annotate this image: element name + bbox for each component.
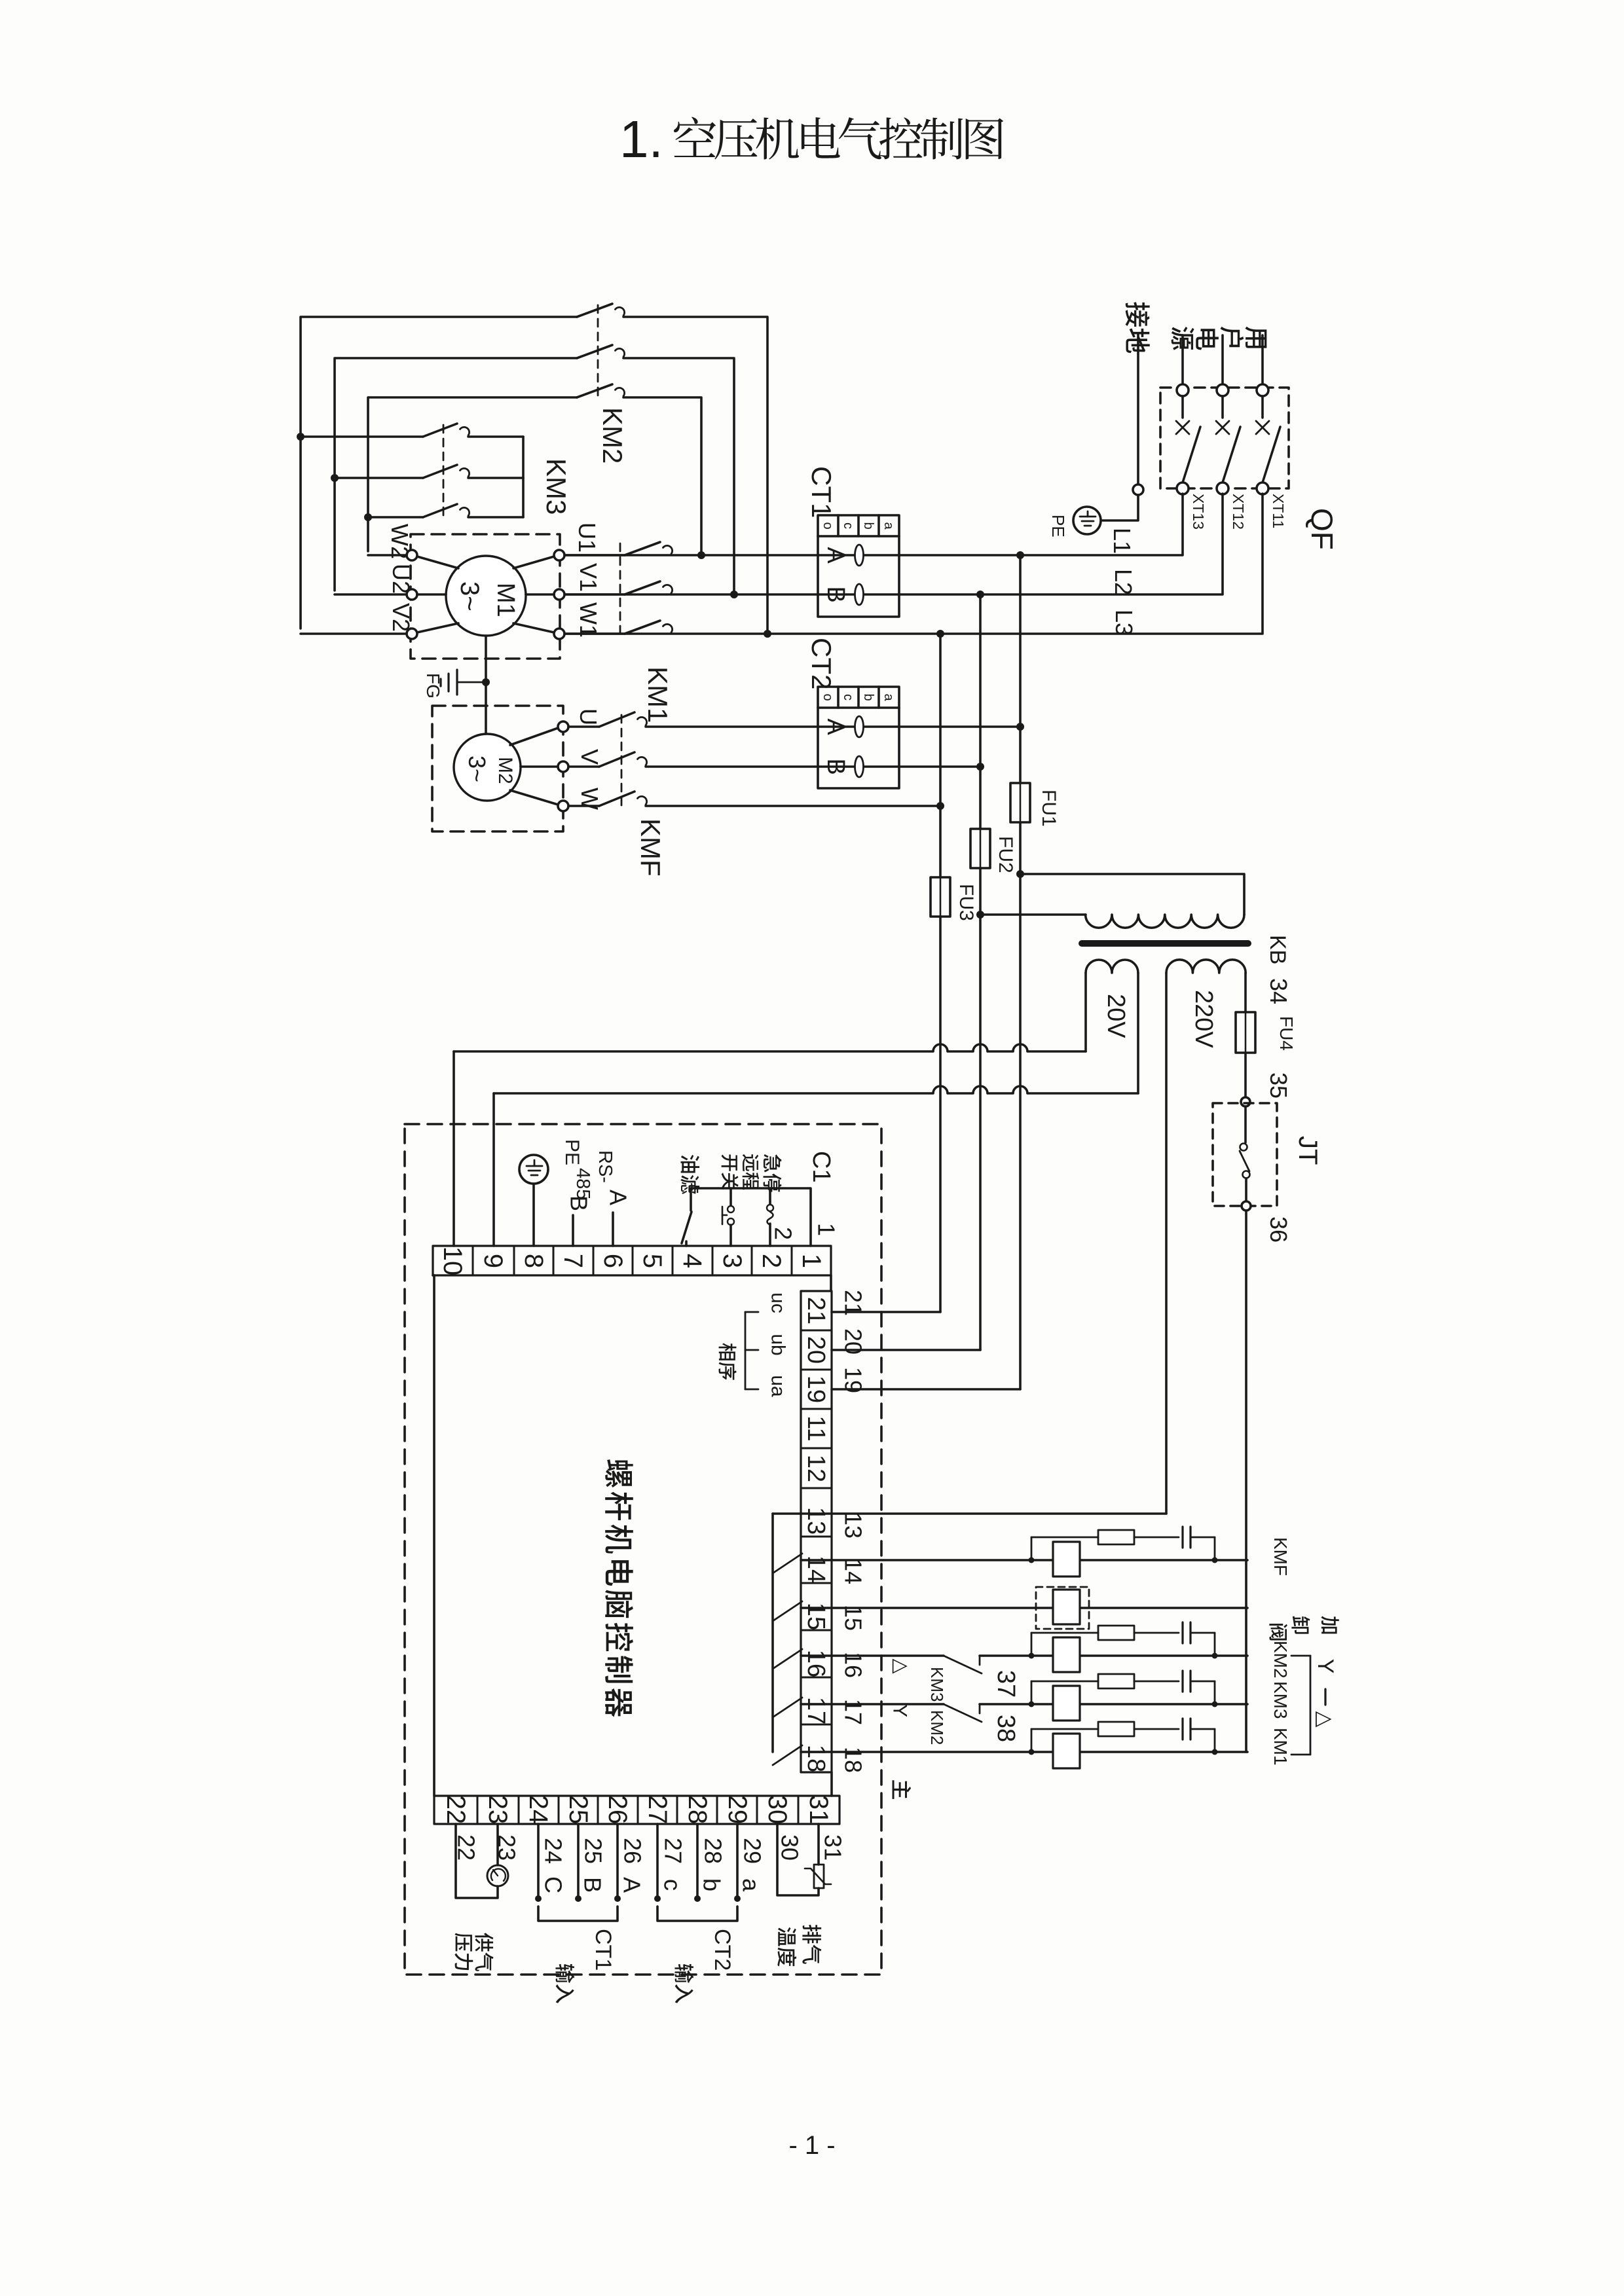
wire FU2 branch lower <box>979 868 982 1350</box>
wire M2 phase A to tap <box>646 725 1020 728</box>
svg-text:o: o <box>821 693 835 701</box>
label 远程开关 <box>743 1154 759 1171</box>
motor M1 body <box>446 556 526 636</box>
svg-text:13: 13 <box>840 1512 867 1539</box>
svg-text:c: c <box>841 522 855 529</box>
svg-text:uc: uc <box>767 1292 789 1313</box>
junction KM2 pole3 on L1 <box>697 551 705 559</box>
motor M1 terminal leads <box>417 556 458 568</box>
contactor KM2 pole1 loop wire (V2 phase) <box>301 317 577 629</box>
svg-text:8: 8 <box>519 1254 548 1268</box>
contactor KM3 pole3 contact <box>423 504 457 517</box>
contactor KM1 linkage dashed <box>619 543 621 636</box>
interlock contact KM3 NC with node 37 <box>944 1656 982 1673</box>
valve 加卸阀 coil with dashed box <box>1036 1587 1089 1629</box>
svg-text:b: b <box>699 1878 726 1891</box>
connector C1 common wire <box>691 1188 811 1246</box>
svg-text:A: A <box>822 547 849 564</box>
svg-text:29: 29 <box>739 1838 766 1864</box>
svg-text:1: 1 <box>797 1254 826 1268</box>
junction FG tap <box>482 678 490 686</box>
svg-text:7: 7 <box>559 1254 587 1268</box>
contactor KM3 star bar <box>522 437 525 517</box>
svg-text:22: 22 <box>441 1795 470 1825</box>
svg-text:JT: JT <box>1293 1136 1322 1165</box>
breaker QF pole 2 top terminal <box>1217 384 1228 396</box>
svg-text:29: 29 <box>723 1795 752 1825</box>
svg-text:3~: 3~ <box>455 581 484 611</box>
svg-text:22: 22 <box>453 1834 480 1861</box>
junction KM3 pole3 tap <box>364 513 372 521</box>
svg-text:W2: W2 <box>386 524 413 559</box>
thermal switch JT dashed box <box>1213 1103 1277 1206</box>
contactor KM2 pole2 wire to L2 <box>623 358 734 591</box>
svg-text:21: 21 <box>802 1297 830 1324</box>
contactor KM2 pole1 wire to L3 <box>623 317 767 630</box>
svg-text:C: C <box>540 1876 567 1893</box>
svg-text:37: 37 <box>992 1670 1020 1698</box>
svg-text:28: 28 <box>700 1838 727 1864</box>
svg-text:ub: ub <box>767 1334 789 1355</box>
label 油滤 <box>681 1155 700 1173</box>
sensor 排气温度 thermistor wires 30 31 <box>777 1824 819 1895</box>
svg-text:14: 14 <box>840 1558 867 1584</box>
svg-text:20: 20 <box>802 1336 830 1364</box>
fuse FU1 <box>1010 783 1030 822</box>
svg-text:V1: V1 <box>575 563 602 592</box>
wire M1 V2 jumper to loop <box>301 632 407 635</box>
relay KM2 snubber RC <box>1031 1633 1033 1656</box>
svg-text:B: B <box>580 1877 606 1893</box>
junction KM3 pole2 tap <box>331 474 339 482</box>
wire M2 phase C to tap <box>646 805 940 807</box>
svg-text:11: 11 <box>802 1415 830 1441</box>
svg-text:CT2: CT2 <box>806 638 837 689</box>
fuse FU3 <box>931 877 950 917</box>
port RS-485 B stub pin 7 <box>572 1215 574 1246</box>
svg-text:Y: Y <box>889 1704 911 1717</box>
motor M1 terminal W1 <box>554 629 564 639</box>
wire L2 bus <box>564 494 1223 594</box>
contactor KM3 pole1 input wire <box>301 435 423 438</box>
svg-text:KMF: KMF <box>1270 1537 1291 1576</box>
contactor KM2 pole2 contact <box>577 345 612 358</box>
svg-text:2: 2 <box>757 1254 786 1268</box>
svg-text:a: a <box>738 1878 765 1892</box>
contactor KM3 linkage dashed <box>443 425 445 520</box>
wire FU3 branch lower <box>939 917 942 1312</box>
wire 20V to terminal 10 with hops <box>454 1044 1086 1051</box>
svg-text:M1: M1 <box>492 583 519 617</box>
svg-text:10: 10 <box>438 1247 467 1276</box>
svg-text:CT1: CT1 <box>806 466 837 518</box>
breaker QF pole 3 bottom terminal <box>1177 483 1189 494</box>
svg-text:9: 9 <box>479 1254 507 1268</box>
label 排气温度 <box>802 1925 821 1944</box>
wire supply L1 lead-in <box>1181 335 1184 385</box>
breaker QF pole 2 bottom terminal <box>1217 483 1228 494</box>
node 接地 ground label <box>1126 302 1150 327</box>
controller terminal strip 10..1 <box>433 1246 831 1275</box>
svg-text:a: a <box>881 693 896 701</box>
wire FU1 branch upper <box>1019 555 1022 783</box>
svg-text:Y: Y <box>1313 1659 1338 1674</box>
contactor KMF pole1 contact <box>568 725 599 728</box>
motor M2 terminal W <box>558 801 568 811</box>
wire M1 frame to FG and M2 <box>485 636 487 735</box>
relay KMF coil <box>1053 1542 1080 1576</box>
relay KM2 channel wire terminal 16 <box>801 1654 944 1657</box>
svg-text:W1: W1 <box>575 602 602 638</box>
svg-text:24: 24 <box>524 1795 553 1825</box>
svg-text:KM2: KM2 <box>927 1710 947 1745</box>
svg-text:V: V <box>576 749 603 765</box>
svg-text:19: 19 <box>802 1376 830 1403</box>
ground PE at controller pin 8 <box>519 1155 548 1184</box>
wire 20V to terminal 9 with hops <box>494 1086 1138 1093</box>
svg-text:25: 25 <box>580 1838 607 1864</box>
svg-text:c: c <box>841 694 855 701</box>
wire FU2 branch upper <box>979 594 982 829</box>
svg-text:34: 34 <box>1265 978 1292 1004</box>
contactor KM3 pole1 output <box>468 435 523 438</box>
transformer KB core <box>1082 940 1248 947</box>
svg-text:XT11: XT11 <box>1270 494 1287 528</box>
svg-text:23: 23 <box>483 1795 512 1825</box>
svg-text:FU3: FU3 <box>955 884 977 921</box>
svg-text:L2: L2 <box>1110 569 1137 595</box>
svg-text:V2: V2 <box>388 603 415 632</box>
wire 220V secondary right leg node 34 <box>1244 973 1247 1012</box>
thermistor RT symbol <box>814 1865 824 1888</box>
svg-text:30: 30 <box>763 1795 792 1825</box>
valve 加卸阀 channel wire terminal 15 <box>801 1607 1247 1609</box>
svg-text:4: 4 <box>678 1254 707 1268</box>
contactor KM3 pole2 output <box>468 477 523 479</box>
CT CT2 port A <box>855 716 864 737</box>
svg-text:26: 26 <box>603 1795 632 1825</box>
wire ground to PE <box>1102 495 1138 520</box>
svg-text:ua: ua <box>767 1375 789 1397</box>
svg-text:FG: FG <box>423 673 443 699</box>
svg-text:b: b <box>861 693 876 701</box>
svg-text:16: 16 <box>802 1650 830 1677</box>
junction KM2 pole1 on L3 <box>764 630 771 638</box>
contactor KM3 pole3 input wire <box>368 516 423 519</box>
relay KM1 channel wire terminal 18 <box>801 1751 1247 1753</box>
wire 20V secondary left leg <box>1084 973 1087 1051</box>
junction KM3 pole1 tap <box>297 433 304 441</box>
contactor KM2 pole3 contact <box>577 384 612 397</box>
svg-text:KB: KB <box>1265 935 1290 964</box>
wire 20V secondary right leg <box>1137 973 1139 1093</box>
label 急停 <box>764 1154 782 1173</box>
svg-text:U: U <box>575 708 602 725</box>
label 主 main <box>893 1780 912 1799</box>
node ground terminal circle <box>1133 484 1143 495</box>
output contacts 14..18 blades <box>773 1554 802 1573</box>
breaker QF pole 3 top terminal <box>1177 384 1189 396</box>
switch 远程开关 remote switch to pin 3 <box>729 1188 732 1205</box>
contactor KMF pole3 contact <box>568 805 599 807</box>
svg-text:20V: 20V <box>1102 994 1130 1038</box>
port RS-485 A stub pin 6 <box>612 1212 614 1246</box>
wire FU3 branch upper <box>939 634 942 877</box>
motor M1 terminal V2 <box>407 629 417 639</box>
svg-text:2: 2 <box>770 1227 797 1240</box>
junction L3 tap to FU3 <box>936 630 944 638</box>
svg-text:△: △ <box>891 1658 912 1673</box>
svg-text:FU4: FU4 <box>1276 1016 1297 1051</box>
svg-text:o: o <box>821 522 835 529</box>
relay KM1 snubber RC <box>1031 1729 1033 1752</box>
transformer KB primary feed from FU2 <box>976 911 984 919</box>
svg-text:36: 36 <box>1265 1216 1292 1243</box>
ground PE symbol <box>1073 507 1101 534</box>
svg-text:485: 485 <box>572 1168 593 1199</box>
svg-text:CT2: CT2 <box>710 1929 735 1971</box>
CT CT2 box <box>818 687 899 788</box>
breaker QF pole 1 contact <box>1261 396 1264 418</box>
relay KM1 coil <box>1053 1734 1080 1768</box>
ground FG symbol <box>457 682 486 683</box>
wire L1 bus <box>564 494 1183 555</box>
svg-text:1.: 1. <box>619 110 663 168</box>
wire supply L3 lead-in <box>1261 335 1264 385</box>
wire ground lead-in <box>1137 334 1139 484</box>
wire M1 right terminals to KM1 <box>564 554 625 556</box>
bracket CT1 input <box>538 1906 618 1921</box>
motor M1 terminal U1 <box>554 550 564 560</box>
breaker QF dashed box <box>1160 388 1289 488</box>
svg-text:KM1: KM1 <box>1270 1728 1291 1766</box>
svg-text:FU1: FU1 <box>1038 790 1060 827</box>
svg-text:3: 3 <box>718 1254 747 1268</box>
valve 加卸阀 label <box>1321 1616 1338 1634</box>
svg-text:30: 30 <box>777 1834 803 1861</box>
relay KMF snubber RC <box>1031 1537 1033 1560</box>
svg-text:KM3: KM3 <box>927 1667 947 1702</box>
fuse FU2 <box>970 829 990 868</box>
contactor KM2 linkage dashed <box>597 305 599 401</box>
svg-text:27: 27 <box>660 1838 687 1864</box>
controller bottom strip 22..31 <box>434 1796 840 1824</box>
wire terminal 19 to FU1 branch <box>832 1388 1020 1391</box>
svg-text:A: A <box>619 1877 646 1893</box>
contactor KM1 pole2 contact <box>625 581 660 594</box>
svg-text:A: A <box>822 718 849 735</box>
switch 油滤 oil filter contact to pin 4 <box>690 1188 692 1211</box>
junction L2 tap to FU2 <box>976 591 984 598</box>
transformer KB primary feed from FU1 <box>1016 870 1024 878</box>
svg-text:KM3: KM3 <box>1270 1681 1291 1719</box>
junction KM2 pole2 on L2 <box>730 591 738 598</box>
svg-text:KM2: KM2 <box>1270 1641 1291 1679</box>
relay KM3 snubber RC <box>1031 1681 1033 1704</box>
contactor KM1 pole1 contact <box>625 542 660 555</box>
junction M2 C tap on FU3 branch <box>936 802 944 810</box>
svg-text:17: 17 <box>840 1699 867 1725</box>
svg-text:M2: M2 <box>494 757 516 784</box>
motor M2 terminal U <box>558 721 568 732</box>
svg-text:12: 12 <box>802 1455 830 1482</box>
CT CT1 port B <box>855 584 864 605</box>
svg-text:B: B <box>822 758 849 774</box>
breaker QF pole 3 contact <box>1181 396 1184 418</box>
wire FU1 branch lower <box>1019 822 1022 1389</box>
svg-text:KM1: KM1 <box>642 666 673 723</box>
motor M2 body <box>454 734 521 801</box>
svg-text:b: b <box>861 522 876 529</box>
svg-text:QF: QF <box>1305 508 1339 550</box>
relay KM2 coil <box>1053 1637 1080 1672</box>
motor M1 terminal W2 <box>407 550 417 560</box>
motor M2 terminal leads <box>510 728 558 745</box>
svg-text:24: 24 <box>540 1838 567 1864</box>
svg-text:U1: U1 <box>574 522 600 553</box>
svg-text:a: a <box>881 522 896 530</box>
svg-text:KM3: KM3 <box>541 458 572 515</box>
transformer KB 20V secondary winding <box>1086 960 1138 973</box>
svg-text:31: 31 <box>804 1795 833 1825</box>
svg-text:35: 35 <box>1265 1072 1292 1099</box>
contactor KM2 pole2 loop wire (U2 phase) <box>335 358 577 591</box>
svg-text:XT13: XT13 <box>1190 494 1207 530</box>
svg-text:18: 18 <box>802 1745 830 1772</box>
svg-text:13: 13 <box>802 1507 830 1535</box>
svg-text:B: B <box>822 586 849 602</box>
label 供气压力 <box>475 1933 493 1951</box>
junction M2 A tap on FU1 branch <box>1016 723 1024 731</box>
svg-text:27: 27 <box>643 1795 672 1825</box>
contactor KM2 pole3 loop wire (W2 phase) <box>368 397 577 551</box>
svg-text:RS-: RS- <box>595 1150 616 1183</box>
sensor pressure symbol <box>487 1865 508 1886</box>
motor M2 dashed enclosure <box>432 706 563 831</box>
relay KM3 channel wire terminal 17 <box>801 1703 944 1705</box>
contactor KM3 pole2 contact <box>423 465 457 478</box>
svg-text:18: 18 <box>840 1747 867 1773</box>
wire terminal 21 to FU3 branch <box>832 1311 940 1313</box>
node 36 terminal <box>1242 1201 1251 1211</box>
svg-text:5: 5 <box>638 1254 667 1268</box>
svg-text:c: c <box>659 1879 686 1891</box>
motor M1 terminal V1 <box>554 589 564 600</box>
svg-text:28: 28 <box>683 1795 712 1825</box>
svg-text:23: 23 <box>494 1834 521 1861</box>
CT CT2 port B <box>855 756 864 777</box>
relay KM3 coil <box>1053 1686 1080 1721</box>
motor M1 dashed enclosure <box>411 534 560 659</box>
transformer KB primary winding <box>1086 915 1244 928</box>
contactor KM2 pole3 wire to L1 <box>623 397 701 551</box>
node 35 terminal <box>1241 1097 1250 1106</box>
svg-text:PE: PE <box>1048 515 1068 538</box>
controller main box outline <box>433 1274 434 1277</box>
svg-text:31: 31 <box>820 1834 847 1861</box>
sensor 供气压力 pressure transducer wires 22 23 <box>456 1824 498 1898</box>
svg-text:220V: 220V <box>1190 990 1217 1048</box>
relay KMF channel wire terminal 14 <box>801 1559 1247 1561</box>
svg-text:25: 25 <box>564 1795 593 1825</box>
bracket Y-delta <box>1310 1656 1312 1755</box>
svg-text:KMF: KMF <box>635 818 666 877</box>
switch 急停 emergency stop to pin 2 <box>769 1188 771 1205</box>
motor M2 terminal V <box>558 761 568 772</box>
contactor KM3 pole3 output <box>468 516 523 519</box>
input CT2 sensor wires 27 28 29 <box>656 1824 659 1896</box>
svg-text:U2: U2 <box>388 564 415 594</box>
CT CT1 box <box>818 515 899 617</box>
wire terminal 20 to FU2 branch <box>832 1349 980 1351</box>
contactor KM3 pole2 input wire <box>335 477 423 479</box>
controller outer dashed enclosure <box>405 1124 881 1975</box>
wire L3 bus <box>564 494 1263 634</box>
thermal switch JT contact <box>1244 1106 1247 1142</box>
svg-text:26: 26 <box>619 1838 646 1864</box>
wire M1 U2 jumper to loop <box>335 593 407 596</box>
wire node 36 to relay common <box>1245 1211 1247 1752</box>
junction M2 B tap on FU2 branch <box>976 763 984 771</box>
interlock contact KM2 NC with node 38 <box>944 1704 982 1722</box>
svg-text:FU2: FU2 <box>995 836 1016 873</box>
phase sequence 相序 label and bracket <box>719 1343 737 1360</box>
fuse FU4 <box>1236 1012 1255 1053</box>
svg-text:- 1 -: - 1 - <box>788 2131 835 2160</box>
contactor KMF pole2 contact <box>568 765 599 768</box>
transformer KB 220V secondary winding <box>1166 960 1246 973</box>
controller main label 螺杆机电脑控制器 <box>605 1459 633 1487</box>
contactor KMF linkage dashed <box>621 715 623 809</box>
node 用户电源 user supply label <box>1245 327 1266 348</box>
svg-text:C1: C1 <box>807 1151 835 1183</box>
svg-text:17: 17 <box>802 1697 830 1724</box>
wire supply L2 lead-in <box>1221 335 1224 385</box>
svg-text:L1: L1 <box>1109 528 1135 554</box>
svg-text:CT1: CT1 <box>591 1929 616 1971</box>
controller right strip 21..18 <box>801 1291 832 1772</box>
contactor KM2 pole1 contact <box>577 304 612 317</box>
net 13 common wire to 220V return <box>773 1512 1166 1515</box>
svg-text:XT12: XT12 <box>1230 494 1247 530</box>
wire M2 phase B to tap <box>646 765 980 768</box>
svg-text:KM2: KM2 <box>597 407 628 464</box>
svg-text:△: △ <box>1314 1711 1337 1728</box>
contactor KM1 pole3 contact <box>625 621 660 634</box>
svg-text:38: 38 <box>992 1715 1020 1742</box>
svg-text:3~: 3~ <box>464 756 490 782</box>
svg-text:L3: L3 <box>1111 610 1137 636</box>
wire 220V secondary left leg to terminal 13 net <box>1165 973 1168 1514</box>
breaker QF pole 2 contact <box>1221 396 1224 418</box>
svg-text:6: 6 <box>599 1254 627 1268</box>
contactor KM3 pole1 contact <box>423 424 457 437</box>
wire M1 W2 jumper to loop <box>368 554 407 556</box>
bracket CT2 input <box>657 1906 737 1921</box>
svg-text:PE: PE <box>561 1139 583 1165</box>
input CT1 sensor wires 24 25 26 <box>537 1824 540 1896</box>
wire FU4 to node 35 <box>1244 1053 1247 1097</box>
svg-text:1: 1 <box>813 1223 840 1236</box>
motor M1 terminal U2 <box>407 589 417 600</box>
breaker QF pole 1 top terminal <box>1257 384 1268 396</box>
junction L1 tap to FU1 <box>1016 551 1024 559</box>
breaker QF pole 1 bottom terminal <box>1257 483 1268 494</box>
svg-text:A: A <box>605 1190 632 1205</box>
CT CT1 port A <box>855 545 864 566</box>
